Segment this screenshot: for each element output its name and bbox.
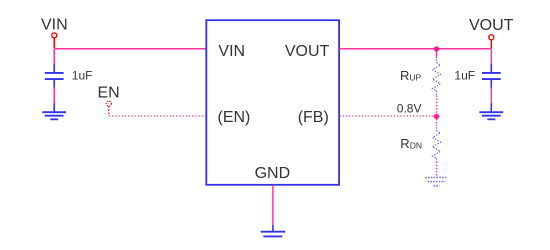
ground (right) [479,103,503,119]
svg-text:1uF: 1uF [454,68,475,82]
svg-text:VOUT: VOUT [285,43,330,60]
svg-text:VOUT: VOUT [469,17,514,34]
junction FB node [434,114,439,119]
wire C2 to ground [490,88,492,104]
ground (bottom center) [261,225,286,236]
capacitor C1 [45,64,64,88]
ground (left) [42,103,66,119]
wire VIN to IC [54,48,206,50]
svg-text:VIN: VIN [41,17,68,34]
wire RDN to ground (dotted) [436,162,438,177]
wire RUP top stub [436,51,438,57]
wire RUP to FB node (dotted) [436,96,438,117]
svg-text:VIN: VIN [218,43,245,60]
svg-text:(FB): (FB) [298,109,329,126]
wire EN to IC (dotted) [109,115,206,117]
wire VIN terminal stub [53,38,55,48]
wire VOUT to terminal [340,48,492,50]
wire FB to node (dotted) [340,115,437,117]
svg-text:1uF: 1uF [72,69,93,83]
op-amp U1 regulator body [206,20,339,185]
capacitor C2 [482,64,501,88]
terminal VOUT [489,35,494,40]
svg-text:0.8V: 0.8V [397,102,422,116]
terminal VIN [52,33,57,38]
terminal EN (dashed) [106,101,111,106]
wire C1 to ground [53,88,55,104]
svg-text:GND: GND [255,165,291,182]
resistor RDN (dashed) [433,125,441,162]
junction VOUT/RUP node [434,46,439,51]
wire EN stub (dotted) [108,106,110,116]
wire FB node to RDN (dotted) [436,119,438,125]
svg-text:(EN): (EN) [218,109,251,126]
ground (dashed, below RDN) [425,177,447,186]
wire VIN node down to C1 [53,49,55,64]
resistor RUP (dashed) [433,57,441,96]
wire GND pin to ground [272,185,274,225]
wire VOUT terminal stub [490,40,492,48]
svg-text:EN: EN [98,85,120,102]
wire VOUT node down to C2 [490,49,492,64]
